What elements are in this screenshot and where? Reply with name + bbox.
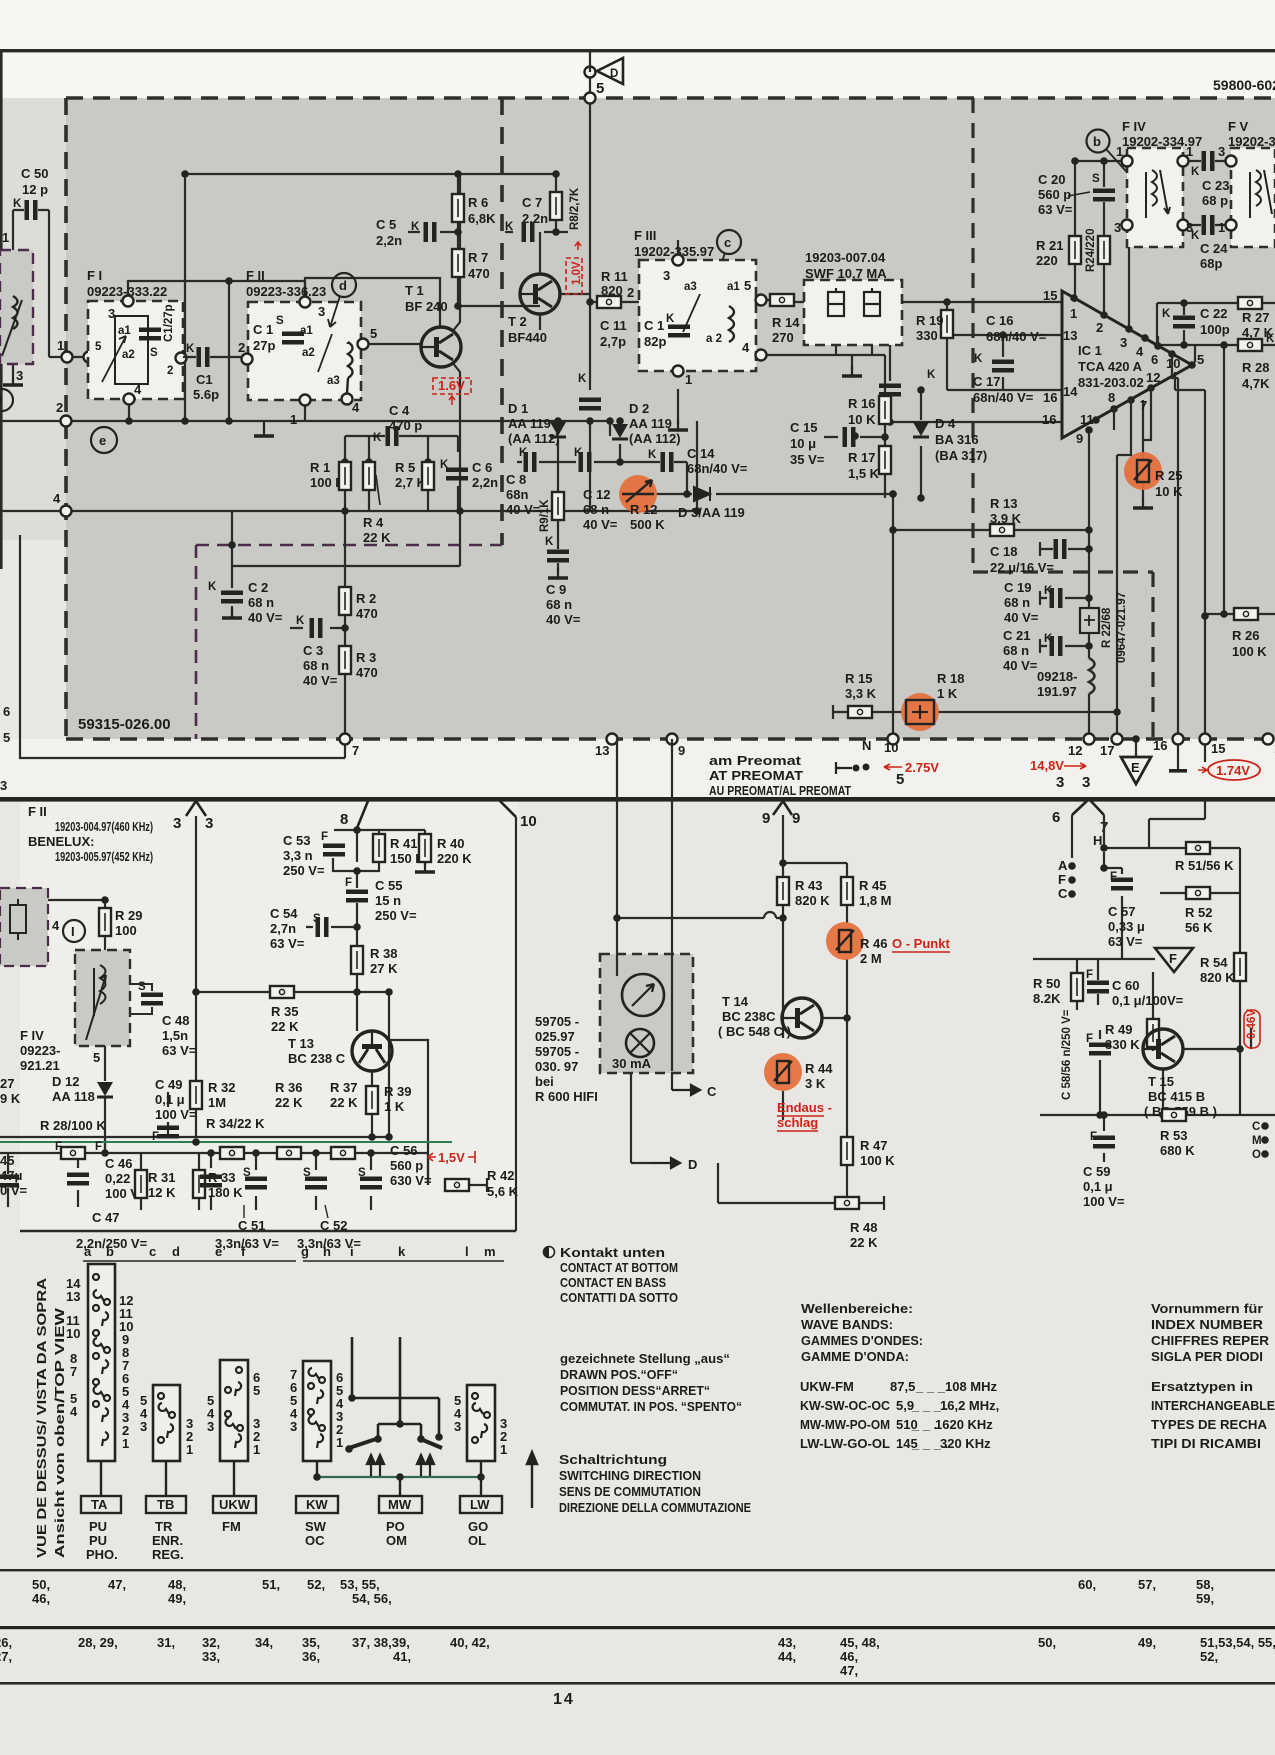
svg-text:1: 1	[1218, 220, 1225, 235]
svg-text:l: l	[465, 1244, 469, 1259]
svg-text:am Preomat: am Preomat	[709, 753, 802, 768]
svg-text:C 21: C 21	[1003, 628, 1030, 643]
svg-text:DIREZIONE DELLA COMMUTAZIONE: DIREZIONE DELLA COMMUTAZIONE	[559, 1500, 751, 1515]
svg-text:1: 1	[1186, 144, 1193, 159]
diode D4	[913, 422, 929, 437]
C54 stub	[306, 926, 357, 928]
black line y1137 and green line y1141	[0, 1136, 390, 1138]
svg-text:470: 470	[356, 606, 378, 621]
svg-text:1: 1	[186, 1442, 193, 1457]
svg-text:T 13: T 13	[288, 1036, 314, 1051]
svg-text:15: 15	[1211, 741, 1225, 756]
svg-text:S: S	[276, 315, 284, 327]
svg-text:R 28: R 28	[1242, 360, 1269, 375]
svg-text:5: 5	[370, 326, 377, 341]
svg-text:C 12: C 12	[583, 487, 610, 502]
svg-text:( BC 548 C ): ( BC 548 C )	[718, 1024, 791, 1039]
left lower box	[20, 535, 345, 758]
svg-text:320 KHz: 320 KHz	[940, 1436, 991, 1451]
svg-text:4: 4	[53, 491, 61, 506]
svg-text:3,3n/63 V=: 3,3n/63 V=	[215, 1236, 279, 1251]
svg-text:19203-005.97(452 KHz): 19203-005.97(452 KHz)	[55, 849, 153, 864]
svg-text:5: 5	[253, 1383, 260, 1398]
svg-text:R9/1K: R9/1K	[539, 499, 551, 532]
svg-text:D 12: D 12	[52, 1074, 79, 1089]
svg-text:INDEX NUMBER: INDEX NUMBER	[1151, 1317, 1264, 1332]
wire y390 pin14	[947, 389, 1062, 391]
svg-text:12: 12	[1146, 370, 1160, 385]
svg-text:59705 -: 59705 -	[535, 1044, 579, 1059]
svg-text:K: K	[648, 449, 657, 461]
svg-text:68n/40 V=: 68n/40 V=	[986, 329, 1047, 344]
svg-text:3: 3	[16, 368, 23, 383]
white band under block	[0, 739, 1275, 800]
svg-text:3: 3	[318, 304, 325, 319]
svg-text:5: 5	[596, 80, 604, 97]
svg-text:2,7n: 2,7n	[270, 921, 296, 936]
svg-text:09223-336.23: 09223-336.23	[246, 284, 326, 299]
resistor R49	[1147, 1019, 1159, 1047]
svg-text:F: F	[1086, 969, 1093, 981]
x1178 x1205	[1178, 378, 1205, 739]
svg-text:K: K	[440, 459, 449, 471]
svg-text:TA: TA	[91, 1497, 108, 1512]
svg-text:4: 4	[1136, 344, 1144, 359]
svg-text:59315-026.00: 59315-026.00	[78, 716, 171, 733]
svg-text:8: 8	[1108, 390, 1115, 405]
svg-text:C 60: C 60	[1112, 978, 1139, 993]
svg-text:2: 2	[56, 400, 63, 415]
svg-text:9 K: 9 K	[0, 1091, 21, 1106]
svg-text:R 32: R 32	[208, 1080, 235, 1095]
svg-text:T 2: T 2	[508, 314, 527, 329]
svg-text:C: C	[707, 1084, 717, 1099]
lower white boxed area	[20, 800, 519, 1231]
resistor R35	[270, 986, 294, 998]
svg-text:F II: F II	[28, 804, 47, 819]
svg-text:C 3: C 3	[303, 643, 323, 658]
capacitor C50	[13, 166, 48, 220]
svg-text:D 1: D 1	[508, 401, 528, 416]
wire node2 row	[0, 420, 610, 422]
red 1.6V	[438, 378, 465, 393]
IC1 triangle	[1062, 291, 1192, 438]
svg-text:030. 97: 030. 97	[535, 1059, 578, 1074]
svg-text:a2: a2	[302, 347, 315, 359]
antenna coil	[13, 296, 18, 329]
dashed partition around IF	[973, 98, 1153, 739]
pin16 stub bar	[1177, 739, 1179, 771]
svg-text:15 n: 15 n	[375, 893, 401, 908]
C18 C19 C21 end ticks	[1039, 542, 1041, 653]
svg-text:16: 16	[1043, 390, 1057, 405]
svg-text:a3: a3	[684, 281, 697, 293]
svg-text:F: F	[1169, 951, 1177, 966]
T13 collector	[388, 1040, 487, 1192]
svg-text:M: M	[1252, 1135, 1262, 1147]
resistor R8	[550, 192, 562, 220]
svg-text:15: 15	[1043, 288, 1057, 303]
svg-text:108 MHz: 108 MHz	[945, 1379, 998, 1394]
resistor R2	[339, 587, 351, 615]
svg-text:60,: 60,	[1078, 1577, 1096, 1592]
svg-text:O: O	[1252, 1149, 1261, 1161]
R15 R18 row y712	[833, 705, 1117, 719]
svg-text:10: 10	[884, 740, 898, 755]
coil L-ant dashed box	[0, 250, 33, 364]
potentiometer R12 (orange highlight)	[619, 475, 657, 513]
svg-text:AT PREOMAT: AT PREOMAT	[709, 768, 803, 783]
svg-text:BENELUX:: BENELUX:	[28, 834, 94, 849]
svg-text:d: d	[339, 278, 347, 293]
svg-text:1: 1	[1116, 144, 1123, 159]
svg-text:MW-MW-PO-OM: MW-MW-PO-OM	[800, 1417, 890, 1432]
svg-text:5: 5	[896, 771, 904, 788]
purple inner dashed box	[196, 545, 502, 739]
svg-text:K: K	[578, 373, 587, 385]
svg-text:5: 5	[744, 278, 751, 293]
small gray box top-left	[0, 888, 48, 966]
svg-text:Wellenbereiche:: Wellenbereiche:	[801, 1301, 913, 1316]
svg-text:K: K	[974, 353, 983, 365]
svg-text:68 n: 68 n	[583, 502, 609, 517]
junction dots top-left	[181, 170, 189, 178]
svg-text:C 56: C 56	[390, 1143, 417, 1158]
F triangle	[1155, 948, 1193, 972]
svg-text:68 n: 68 n	[1003, 643, 1029, 658]
svg-text:C 16: C 16	[986, 313, 1013, 328]
svg-text:63 V=: 63 V=	[1038, 202, 1073, 217]
svg-text:560 p: 560 p	[390, 1158, 423, 1173]
svg-text:C 50: C 50	[21, 166, 48, 181]
svg-text:R 22/68: R 22/68	[1101, 607, 1113, 648]
svg-text:K: K	[927, 369, 936, 381]
svg-text:C 4: C 4	[389, 403, 410, 418]
svg-text:8: 8	[340, 811, 348, 828]
resistor R17	[879, 446, 891, 474]
table line 1	[0, 1569, 1275, 1571]
svg-text:R 50: R 50	[1033, 976, 1060, 991]
connector 3 3	[186, 801, 206, 816]
svg-text:68n/40 V=: 68n/40 V=	[687, 461, 748, 476]
svg-text:330: 330	[916, 328, 938, 343]
svg-text:3: 3	[205, 815, 213, 832]
red 1.0V rotated	[566, 258, 582, 294]
svg-text:35 V=: 35 V=	[790, 452, 825, 467]
svg-text:C 19: C 19	[1004, 580, 1031, 595]
svg-text:3,3 n: 3,3 n	[283, 848, 313, 863]
resistor R14	[770, 294, 794, 306]
coil on x1089	[1089, 658, 1095, 694]
svg-text:3: 3	[1056, 774, 1064, 791]
svg-text:C 23: C 23	[1202, 178, 1229, 193]
svg-text:R 31: R 31	[148, 1170, 175, 1185]
resistor R51, resistor R52	[1186, 842, 1210, 854]
R6/R7 chain	[458, 174, 540, 306]
svg-text:R 52: R 52	[1185, 905, 1212, 920]
svg-text:IC 1: IC 1	[1078, 343, 1102, 358]
svg-text:27p: 27p	[253, 338, 275, 353]
svg-text:CHIFFRES REPER: CHIFFRES REPER	[1151, 1333, 1270, 1348]
svg-text:250 V=: 250 V=	[283, 863, 325, 878]
svg-text:2,2n: 2,2n	[472, 475, 498, 490]
svg-text:0,1 μ: 0,1 μ	[1083, 1179, 1113, 1194]
svg-text:BA 316: BA 316	[935, 432, 979, 447]
hang-down verticals	[78, 1140, 428, 1210]
svg-text:F: F	[321, 831, 328, 843]
svg-text:AA 119: AA 119	[508, 416, 551, 431]
R16/R17/C15 chain	[824, 355, 885, 498]
resistor R14	[766, 299, 772, 301]
IF main wire y302	[652, 301, 1062, 303]
svg-text:3 K: 3 K	[805, 1076, 826, 1091]
svg-text:1.6V: 1.6V	[438, 378, 465, 393]
svg-text:TIPI DI RICAMBI: TIPI DI RICAMBI	[1151, 1436, 1261, 1451]
svg-text:C 24: C 24	[1200, 241, 1228, 256]
svg-text:500 K: 500 K	[630, 517, 665, 532]
svg-text:f: f	[241, 1244, 246, 1259]
svg-text:C 49: C 49	[155, 1077, 182, 1092]
transistor T15	[1143, 1029, 1183, 1069]
svg-text:43,: 43,	[778, 1635, 796, 1650]
pin verticals below triangle	[1114, 336, 1178, 455]
svg-text:GAMMES D'ONDES:: GAMMES D'ONDES:	[801, 1333, 923, 1348]
svg-text:12 K: 12 K	[148, 1185, 176, 1200]
svg-text:5: 5	[93, 1050, 100, 1065]
svg-text:F V: F V	[1228, 119, 1249, 134]
svg-text:10: 10	[520, 813, 537, 830]
svg-text:68 n: 68 n	[248, 595, 274, 610]
svg-text:22 K: 22 K	[363, 530, 391, 545]
svg-text:2.75V: 2.75V	[905, 760, 939, 775]
resistor R22/68	[1080, 608, 1099, 633]
svg-text:R 19: R 19	[916, 313, 943, 328]
svg-text:OL: OL	[468, 1533, 486, 1548]
contact letters	[84, 1244, 496, 1259]
svg-text:TB: TB	[157, 1497, 174, 1512]
svg-text:c: c	[724, 235, 731, 250]
svg-text:K: K	[666, 313, 675, 325]
svg-text:7: 7	[70, 1364, 77, 1379]
resistor R40	[419, 834, 431, 862]
x1143 pin7 R25	[1142, 400, 1144, 500]
capacitor C11	[589, 302, 591, 511]
F IV area wires	[1075, 161, 1231, 329]
vertical main x590	[590, 72, 640, 302]
svg-text:AU PREOMAT/AL PREOMAT: AU PREOMAT/AL PREOMAT	[709, 783, 851, 798]
svg-text:F: F	[345, 877, 352, 889]
svg-text:100 V=: 100 V=	[1083, 1194, 1125, 1209]
svg-text:47,: 47,	[108, 1577, 126, 1592]
svg-text:R 4: R 4	[363, 515, 384, 530]
svg-text:2: 2	[1096, 320, 1103, 335]
svg-text:2: 2	[167, 365, 173, 377]
svg-text:F I: F I	[87, 268, 102, 283]
F IV	[1087, 130, 1110, 153]
svg-text:2,7p: 2,7p	[600, 334, 626, 349]
svg-text:100p: 100p	[1200, 322, 1230, 337]
svg-text:8.2K: 8.2K	[1033, 991, 1061, 1006]
svg-text:C 53: C 53	[283, 833, 310, 848]
svg-text:6: 6	[1052, 809, 1060, 826]
svg-text:3: 3	[290, 1419, 297, 1434]
resistor R38	[351, 946, 363, 974]
inner partition dashed	[500, 98, 504, 545]
resistor R43, resistor R45	[777, 877, 789, 905]
x1089 line	[1088, 432, 1090, 739]
svg-text:R 15: R 15	[845, 671, 872, 686]
svg-text:ENR.: ENR.	[152, 1533, 183, 1548]
svg-text:57,: 57,	[1138, 1577, 1156, 1592]
svg-text:R 53: R 53	[1160, 1128, 1187, 1143]
C5 wire	[408, 231, 458, 233]
svg-text:schlag: schlag	[777, 1115, 818, 1130]
svg-text:K: K	[296, 615, 305, 627]
chain row y1153	[0, 1152, 428, 1154]
svg-text:Kontakt unten: Kontakt unten	[560, 1245, 665, 1260]
svg-text:R 51/56 K: R 51/56 K	[1175, 858, 1234, 873]
C19 C21 stubs	[1040, 598, 1089, 646]
svg-text:UKW-FM: UKW-FM	[800, 1379, 854, 1394]
svg-text:AA 119: AA 119	[629, 416, 672, 431]
svg-text:17: 17	[1100, 743, 1114, 758]
svg-text:F IV: F IV	[20, 1028, 44, 1043]
svg-text:a1: a1	[118, 325, 131, 337]
MW switch assembly	[349, 1337, 442, 1448]
svg-text:R 17: R 17	[848, 450, 875, 465]
svg-text:E: E	[1131, 760, 1140, 775]
I circle	[63, 920, 85, 942]
svg-text:R 54: R 54	[1200, 955, 1228, 970]
svg-text:R 14: R 14	[772, 315, 800, 330]
SWF crystals stems	[836, 280, 872, 355]
svg-text:68 n: 68 n	[546, 597, 572, 612]
svg-text:KW: KW	[306, 1497, 328, 1512]
svg-text:3,9 K: 3,9 K	[990, 511, 1022, 526]
svg-text:SW: SW	[305, 1519, 327, 1534]
block dashed border	[66, 98, 1275, 739]
1.74V red oval	[1208, 760, 1260, 780]
svg-text:1.74V: 1.74V	[1216, 763, 1250, 778]
svg-text:C 8: C 8	[506, 472, 526, 487]
svg-text:C 48: C 48	[162, 1013, 189, 1028]
svg-text:13: 13	[1063, 328, 1077, 343]
svg-text:58,: 58,	[1196, 1577, 1214, 1592]
svg-text:5: 5	[3, 730, 10, 745]
bottom box line	[20, 1230, 516, 1232]
svg-text:49,: 49,	[1138, 1635, 1156, 1650]
svg-text:a1: a1	[727, 281, 740, 293]
resistor R7	[452, 249, 464, 277]
svg-text:11: 11	[1080, 412, 1094, 427]
svg-text:4: 4	[352, 400, 360, 415]
x105 column	[48, 900, 105, 1153]
svg-text:22 μ/16 V=: 22 μ/16 V=	[990, 560, 1054, 575]
C17 x890	[890, 302, 1062, 422]
svg-text:12 p: 12 p	[22, 182, 48, 197]
svg-text:13: 13	[66, 1289, 80, 1304]
svg-text:40, 42,: 40, 42,	[450, 1635, 490, 1650]
svg-text:MW: MW	[388, 1497, 412, 1512]
svg-text:R 26: R 26	[1232, 628, 1259, 643]
svg-text:40 V=: 40 V=	[1004, 610, 1039, 625]
svg-text:R24/220: R24/220	[1085, 229, 1097, 272]
svg-text:R 21: R 21	[1036, 238, 1063, 253]
svg-text:R 48: R 48	[850, 1220, 877, 1235]
svg-text:680 K: 680 K	[1160, 1143, 1195, 1158]
svg-text:K: K	[186, 343, 195, 355]
svg-text:D 4: D 4	[935, 416, 956, 431]
D4 vertical	[920, 390, 922, 498]
svg-text:09218-: 09218-	[1037, 669, 1077, 684]
svg-text:1: 1	[500, 1442, 507, 1457]
svg-text:36,: 36,	[302, 1649, 320, 1664]
up arrows	[367, 1455, 434, 1477]
left strip beside main block	[0, 98, 66, 739]
svg-text:16: 16	[1153, 738, 1167, 753]
svg-text:3: 3	[1218, 144, 1225, 159]
F III pin risers	[678, 240, 872, 424]
svg-text:SIGLA PER DIODI: SIGLA PER DIODI	[1151, 1349, 1263, 1364]
svg-text:44,: 44,	[778, 1649, 796, 1664]
svg-text:14: 14	[553, 1691, 575, 1708]
switch column UKW	[220, 1360, 248, 1461]
svg-text:C 47: C 47	[92, 1210, 119, 1225]
svg-text:3: 3	[0, 778, 7, 793]
svg-text:C 9: C 9	[546, 582, 566, 597]
svg-text:1,5 K: 1,5 K	[848, 466, 880, 481]
node 5 at top	[585, 93, 596, 104]
svg-text:R 11: R 11	[601, 269, 628, 284]
svg-text:40 V=: 40 V=	[1003, 658, 1038, 673]
svg-text:28, 29,: 28, 29,	[78, 1635, 118, 1650]
svg-text:C: C	[1252, 1121, 1260, 1133]
svg-text:470: 470	[468, 266, 490, 281]
svg-text:R 16: R 16	[848, 396, 875, 411]
svg-text:a 2: a 2	[706, 333, 722, 345]
wire y335 pin13	[947, 334, 1062, 336]
svg-text:46,: 46,	[32, 1591, 50, 1606]
svg-text:c: c	[149, 1244, 156, 1259]
svg-text:68p: 68p	[1200, 256, 1222, 271]
svg-text:(AA 112): (AA 112)	[629, 431, 681, 446]
resistor R54	[1234, 953, 1246, 981]
svg-text:52,: 52,	[307, 1577, 325, 1592]
svg-text:87,5: 87,5	[890, 1379, 915, 1394]
C4 row	[345, 421, 697, 511]
transistor T2	[540, 232, 590, 330]
svg-text:C 58/56 n/250 V=: C 58/56 n/250 V=	[1061, 1009, 1073, 1100]
svg-text:Vornummern für: Vornummern für	[1151, 1301, 1263, 1316]
triangle D	[597, 58, 623, 84]
svg-text:C 5: C 5	[376, 217, 396, 232]
svg-text:C 1: C 1	[644, 318, 664, 333]
resistor R42	[445, 1179, 469, 1191]
svg-text:I: I	[71, 924, 75, 939]
svg-text:09223-: 09223-	[20, 1043, 60, 1058]
left page edge line	[0, 49, 3, 569]
svg-text:40 V=: 40 V=	[248, 610, 283, 625]
svg-text:N: N	[862, 738, 871, 753]
svg-text:5: 5	[95, 341, 102, 353]
svg-text:470: 470	[356, 665, 378, 680]
R19 C16	[947, 302, 1003, 390]
svg-text:191.97: 191.97	[1037, 684, 1077, 699]
capacitor C23, capacitor C24	[1202, 151, 1215, 171]
svg-text:R 46: R 46	[860, 936, 887, 951]
node 1	[62, 352, 73, 363]
svg-text:F III: F III	[634, 228, 656, 243]
